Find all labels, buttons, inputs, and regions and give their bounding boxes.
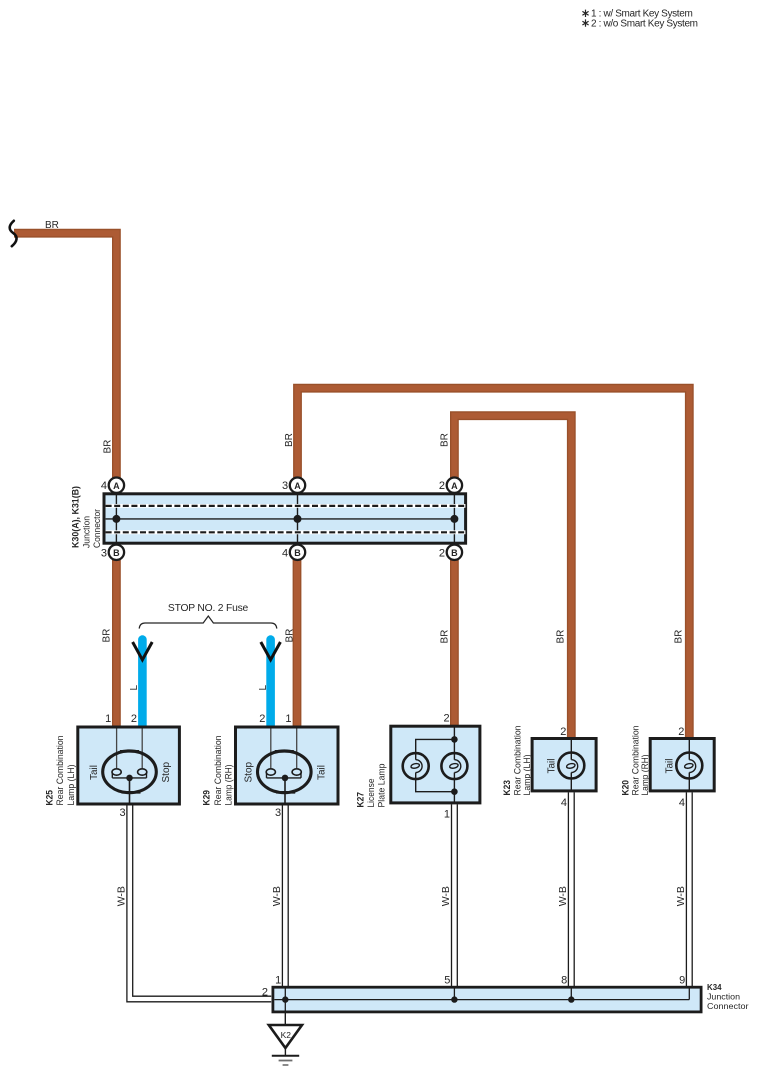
arrowhead on L wire (K25) bbox=[133, 642, 153, 660]
K27 right bulb bbox=[441, 753, 467, 779]
K20 tail bulb bbox=[676, 753, 702, 779]
svg-text:Tail: Tail bbox=[547, 758, 558, 773]
svg-text:Junction: Junction bbox=[81, 516, 92, 548]
wire: L (blue) into K25 pin 2 bbox=[138, 640, 147, 727]
svg-text:BR: BR bbox=[103, 440, 114, 454]
svg-text:License: License bbox=[366, 779, 377, 808]
svg-text:Lamp (LH): Lamp (LH) bbox=[522, 755, 533, 796]
svg-text:2: 2 bbox=[262, 987, 268, 999]
label K30(A),K31(B) Junction Connector (rotated) bbox=[71, 486, 104, 548]
K25 pin 1 lead bbox=[116, 729, 118, 769]
svg-text:1: 1 bbox=[285, 713, 291, 725]
K29 pin 1 lead bbox=[296, 729, 298, 769]
K34 internal wire pin 8 bbox=[570, 987, 572, 999]
svg-text:Lamp (RH): Lamp (RH) bbox=[640, 755, 651, 796]
K25 internal wire to pin 3 bbox=[129, 778, 131, 804]
svg-text:BR: BR bbox=[284, 433, 295, 447]
pin B4 circle bbox=[290, 545, 305, 560]
pin A2 circle bbox=[447, 478, 462, 493]
svg-text:4: 4 bbox=[101, 480, 107, 492]
K29 pin 2 lead bbox=[270, 729, 272, 769]
wire: BR from pin B2 down to K27 pin 2 bbox=[450, 560, 459, 728]
K29 internal wire to pin 3 bbox=[284, 778, 286, 804]
svg-text:BR: BR bbox=[673, 630, 684, 644]
ground symbol bbox=[272, 1048, 299, 1065]
K27 left bulb bbox=[403, 753, 429, 779]
wire: W-B ground from K20 pin 4 to K34 pin 9 (double line) bbox=[686, 792, 692, 986]
svg-text:2: 2 bbox=[678, 726, 684, 738]
wire: W-B ground from K23 pin 4 to K34 pin 8 (double line) bbox=[568, 792, 574, 986]
wire: BR from pin B4 down to K29 pin 1 bbox=[293, 560, 302, 728]
K34 internal wire pin 5 bbox=[453, 987, 455, 999]
note: asterisk 1 w/ Smart Key System bbox=[582, 9, 692, 20]
K34 internal wire pin 9 bbox=[688, 987, 690, 999]
svg-text:9: 9 bbox=[679, 974, 685, 986]
svg-text:Junction: Junction bbox=[707, 992, 740, 1001]
junction dot on bus at column 2 bbox=[294, 515, 302, 523]
svg-text:2 : w/o Smart Key System: 2 : w/o Smart Key System bbox=[591, 18, 698, 29]
svg-text:2: 2 bbox=[439, 480, 445, 492]
svg-text:K27: K27 bbox=[355, 792, 366, 808]
wire: L (blue) into K29 pin 2 bbox=[266, 640, 275, 727]
svg-text:Lamp (RH): Lamp (RH) bbox=[224, 765, 235, 806]
K30/K31 internal pass-through wire column 3 bbox=[453, 494, 455, 543]
svg-text:Connector: Connector bbox=[92, 509, 103, 548]
svg-text:B: B bbox=[113, 548, 120, 558]
svg-text:B: B bbox=[294, 548, 301, 558]
svg-text:K29: K29 bbox=[202, 790, 213, 806]
svg-text:5: 5 bbox=[444, 974, 450, 986]
svg-text:Rear Combination: Rear Combination bbox=[213, 736, 224, 806]
K23 internal wire bbox=[570, 739, 572, 760]
wire: W-B ground from K25 pin 3 to K34 pin 2 (double line) bbox=[127, 806, 271, 1002]
lamp K23 Rear Combination Lamp (LH) box bbox=[532, 739, 596, 791]
svg-text:4: 4 bbox=[561, 797, 567, 809]
K34 internal wire pin 1 bbox=[284, 987, 286, 1012]
K34 junction dot pin 5 bbox=[451, 996, 457, 1002]
wire: BR run1 from pin A3 up and across to K20 column, down to K20 pin 2 bbox=[298, 388, 690, 738]
svg-text:3: 3 bbox=[275, 807, 281, 819]
svg-text:Stop: Stop bbox=[244, 761, 255, 782]
svg-text:2: 2 bbox=[560, 726, 566, 738]
svg-text:W-B: W-B bbox=[557, 886, 569, 906]
lamp K29 Rear Combination Lamp (RH) box bbox=[236, 727, 339, 804]
svg-text:STOP NO. 2 Fuse: STOP NO. 2 Fuse bbox=[168, 603, 249, 614]
svg-text:2: 2 bbox=[131, 713, 137, 725]
wire: W-B ground from K27 pin 1 to K34 pin 5 (double line) bbox=[452, 804, 458, 986]
pin A4 circle bbox=[109, 478, 124, 493]
svg-text:Tail: Tail bbox=[665, 758, 676, 773]
svg-text:BR: BR bbox=[102, 629, 113, 643]
K27 top junction dot bbox=[451, 736, 458, 743]
ground point triangle K2 bbox=[269, 1025, 302, 1048]
pin A3 circle bbox=[290, 478, 305, 493]
K29 filament common bus bbox=[267, 777, 302, 779]
svg-text:8: 8 bbox=[561, 974, 567, 986]
K29 tail filament bbox=[292, 769, 301, 778]
label K25 Rear Combination Lamp (LH) (rotated) bbox=[44, 736, 77, 806]
svg-text:3: 3 bbox=[119, 807, 125, 819]
K30/K31 internal solid bus (middle) bbox=[106, 518, 455, 520]
label K20 Rear Combination Lamp (RH) (rotated) bbox=[620, 726, 651, 796]
K34 junction dot pin 1/2 bbox=[282, 996, 288, 1002]
svg-text:Tail: Tail bbox=[89, 765, 100, 780]
svg-text:K25: K25 bbox=[44, 789, 55, 805]
svg-text:Tail: Tail bbox=[316, 765, 327, 780]
wire: BR run2 from pin A2 up and across to K23 column, down to K23 pin 2 bbox=[454, 416, 571, 739]
K25 pin 2 lead bbox=[141, 729, 143, 769]
bracket under STOP NO. 2 Fuse bbox=[139, 616, 277, 629]
K30/K31 internal pass-through wire column 1 bbox=[115, 494, 117, 543]
lamp K25 Rear Combination Lamp (LH) box bbox=[78, 727, 180, 804]
svg-text:A: A bbox=[294, 481, 301, 491]
ground lead from K34 bbox=[284, 1013, 286, 1026]
wire: BR feed from left (horizontal then down to junction connector pin A4) bbox=[14, 233, 116, 478]
K25 tail filament bbox=[112, 769, 121, 778]
lamp K20 Rear Combination Lamp (RH) box bbox=[650, 739, 714, 791]
svg-text:K2: K2 bbox=[281, 1030, 292, 1040]
svg-text:BR: BR bbox=[45, 220, 59, 231]
note: asterisk 2 w/o Smart Key System bbox=[582, 18, 697, 29]
junction dot on bus at column 3 bbox=[450, 515, 458, 523]
K27 bottom junction dot bbox=[451, 788, 458, 795]
svg-text:BR: BR bbox=[440, 630, 451, 644]
svg-text:Plate Lamp: Plate Lamp bbox=[377, 764, 388, 808]
wire: BR from pin B3 down to K25 pin 1 bbox=[112, 560, 121, 728]
svg-text:BR: BR bbox=[555, 630, 566, 644]
pin B2 circle bbox=[447, 545, 462, 560]
arrowhead on L wire (K29) bbox=[261, 642, 281, 660]
label K27 License Plate Lamp (rotated) bbox=[355, 764, 387, 808]
label K34 Junction Connector bbox=[707, 983, 749, 1011]
svg-text:K30(A), K31(B): K30(A), K31(B) bbox=[71, 486, 82, 548]
svg-text:Stop: Stop bbox=[161, 761, 172, 782]
svg-text:L: L bbox=[258, 685, 269, 691]
K30/K31 internal pass-through wire column 2 bbox=[297, 494, 299, 543]
svg-text:B: B bbox=[451, 548, 458, 558]
K23 tail bulb bbox=[558, 753, 584, 779]
svg-text:BR: BR bbox=[440, 433, 451, 447]
junction connector K30(A),K31(B) box bbox=[104, 494, 466, 543]
lamp K27 License Plate Lamp box bbox=[391, 726, 480, 803]
K25 filament common bus bbox=[112, 777, 146, 779]
K25 stop filament bbox=[138, 769, 147, 778]
K27 branch to left bulb bbox=[416, 739, 455, 753]
svg-text:2: 2 bbox=[259, 713, 265, 725]
svg-text:W-B: W-B bbox=[440, 886, 452, 906]
svg-text:A: A bbox=[113, 481, 120, 491]
junction connector K34 box bbox=[273, 987, 701, 1012]
svg-text:K20: K20 bbox=[620, 780, 631, 796]
svg-text:K23: K23 bbox=[502, 780, 513, 796]
svg-text:Rear Combination: Rear Combination bbox=[55, 736, 66, 806]
svg-text:L: L bbox=[129, 685, 140, 691]
svg-text:A: A bbox=[451, 481, 458, 491]
K30/K31 internal dashed bus (lower) bbox=[106, 530, 466, 534]
K25 bulb envelope bbox=[103, 751, 157, 793]
K25 internal junction dot bbox=[126, 775, 133, 782]
K34 junction dot pin 8 bbox=[568, 996, 574, 1002]
K34 internal bus line bbox=[274, 999, 689, 1001]
K27 internal wire to pin 1 bbox=[453, 779, 455, 803]
label K29 Rear Combination Lamp (RH) (rotated) bbox=[202, 736, 235, 806]
svg-text:3: 3 bbox=[101, 547, 107, 559]
svg-text:W-B: W-B bbox=[115, 886, 127, 906]
wire: W-B ground from K29 pin 3 to K34 pin 1 (double line) bbox=[282, 806, 288, 987]
svg-text:2: 2 bbox=[443, 712, 449, 724]
svg-text:K34: K34 bbox=[707, 983, 722, 992]
K30/K31 internal dashed bus (upper) bbox=[106, 504, 466, 508]
svg-text:2: 2 bbox=[439, 547, 445, 559]
wire break squiggle at left edge bbox=[10, 221, 17, 246]
svg-text:3: 3 bbox=[282, 480, 288, 492]
K29 internal junction dot bbox=[282, 775, 289, 782]
K29 stop filament bbox=[266, 769, 275, 778]
svg-text:W-B: W-B bbox=[271, 886, 283, 906]
svg-text:4: 4 bbox=[282, 547, 288, 559]
K27 branch to right bulb bbox=[453, 739, 455, 753]
svg-text:1: 1 bbox=[275, 974, 281, 986]
junction dot on bus at column 1 bbox=[112, 515, 120, 523]
svg-text:1: 1 bbox=[105, 713, 111, 725]
svg-text:W-B: W-B bbox=[675, 886, 687, 906]
svg-text:1: 1 bbox=[444, 809, 450, 821]
label K23 Rear Combination Lamp (LH) (rotated) bbox=[502, 726, 533, 796]
svg-text:Lamp (LH): Lamp (LH) bbox=[66, 765, 77, 806]
K20 internal wire bbox=[688, 739, 690, 760]
K27 pin 2 internal wire bbox=[453, 726, 455, 739]
svg-text:Connector: Connector bbox=[707, 1002, 749, 1011]
K29 bulb envelope bbox=[258, 751, 312, 793]
svg-text:4: 4 bbox=[679, 797, 685, 809]
svg-text:BR: BR bbox=[284, 629, 295, 643]
pin B3 circle bbox=[109, 545, 124, 560]
K27 bottom branch from left bulb bbox=[416, 779, 455, 792]
